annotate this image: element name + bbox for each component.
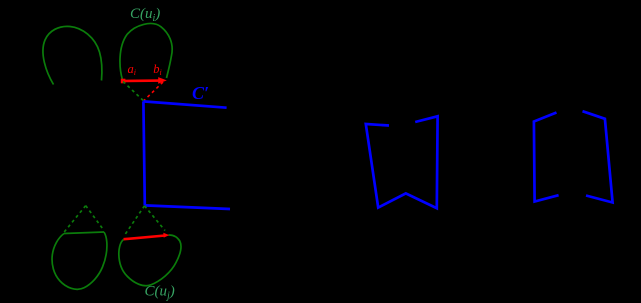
- node a_i square dot: [121, 79, 126, 84]
- middle open cycle (blue flag polygon): [366, 116, 438, 208]
- chord arrow a_i -> b_i (red): [124, 79, 161, 82]
- cycle C' blue path: top branch: [143, 101, 226, 107]
- dashed red edge b_i to top junction: [144, 82, 163, 101]
- bottom-left blob outline (green): [52, 232, 107, 289]
- svg-text:C′: C′: [192, 83, 209, 103]
- cycle loop top-left (open green teardrop): [43, 26, 102, 84]
- right cycle left half (blue bracket): [534, 113, 559, 202]
- C(u_j) dashed triangle left side: [124, 206, 145, 236]
- bottom-left dashed triangle right side: [86, 206, 104, 230]
- svg-text:C(uj): C(uj): [145, 284, 175, 302]
- bottom-left blob chord (green): [64, 232, 104, 234]
- C(u_j) dashed triangle right side: [145, 206, 166, 231]
- cycle C(u_j) blob outline (green): [119, 235, 181, 286]
- bottom-left dashed triangle left side: [64, 206, 86, 233]
- arrowhead at b_i: [158, 77, 167, 84]
- svg-text:C(ui): C(ui): [130, 6, 160, 24]
- right cycle right half (blue bracket): [583, 111, 613, 202]
- dashed green edge a_i to top junction: [123, 82, 144, 101]
- cycle C(u_i) loop (open green teardrop): [120, 24, 172, 80]
- red chord of C(u_j): [124, 236, 166, 240]
- cycle C' blue path: bottom branch: [145, 205, 230, 209]
- cycle C' blue path: vertical branch: [143, 101, 144, 205]
